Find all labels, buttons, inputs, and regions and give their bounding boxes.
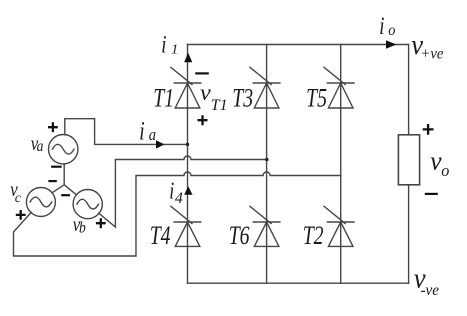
wire bottom rail (v-ve bus) xyxy=(188,282,409,284)
junction node phase a / leg 1 xyxy=(186,143,190,147)
svg-text:1: 1 xyxy=(171,42,178,58)
current arrow i4 xyxy=(184,186,192,195)
voltage source Vc xyxy=(26,188,55,217)
svg-text:i: i xyxy=(139,117,144,145)
current arrow i1 xyxy=(184,53,192,63)
thyristor T5 xyxy=(324,67,354,108)
thyristor T1 xyxy=(171,67,201,108)
label T1 xyxy=(153,83,174,112)
svg-text:T1: T1 xyxy=(211,97,228,114)
svg-text:b: b xyxy=(79,220,86,237)
label v-ve xyxy=(414,263,427,294)
wire phase c from Vc to leg 3 (hops over legs 1 and 2) xyxy=(14,172,341,256)
minus at Vb star side xyxy=(61,194,70,196)
svg-text:o: o xyxy=(388,21,396,39)
minus at Va bottom xyxy=(51,166,62,168)
current arrow io xyxy=(386,40,396,48)
label T2 xyxy=(303,220,324,249)
svg-text:a: a xyxy=(37,138,44,155)
wire phase b from Vb to leg 2 (hop over leg 1) xyxy=(99,156,267,227)
svg-text:T4: T4 xyxy=(150,220,171,249)
wire phase a from Va to leg 1 xyxy=(65,119,188,145)
label ia xyxy=(139,117,144,145)
wire right branch down to load xyxy=(408,45,410,135)
minus at T1 cathode xyxy=(195,72,209,74)
svg-text:T1: T1 xyxy=(153,83,174,112)
label v+ve xyxy=(411,29,424,60)
label va xyxy=(31,132,39,155)
junction node phase b / leg 2 xyxy=(265,158,269,162)
label T3 xyxy=(232,83,253,112)
wire leg 1 (T1/T4) xyxy=(187,45,189,284)
label vT1 xyxy=(200,80,211,105)
minus at Vc star side xyxy=(48,180,56,182)
svg-text:v: v xyxy=(200,80,211,105)
wire leg 2 (T3/T6) xyxy=(266,45,268,284)
label io xyxy=(379,11,384,39)
current arrow ia xyxy=(156,140,165,148)
voltage source Va xyxy=(49,135,78,164)
svg-text:c: c xyxy=(15,191,22,206)
thyristor T6 xyxy=(250,206,280,246)
thyristor T4 xyxy=(171,206,201,246)
label T4 xyxy=(150,220,171,249)
svg-text:T3: T3 xyxy=(232,83,253,112)
wire top rail (v+ve bus) xyxy=(188,44,409,46)
label T6 xyxy=(229,220,250,249)
svg-text:o: o xyxy=(441,161,449,180)
svg-text:T5: T5 xyxy=(306,83,327,112)
wire right branch load to bottom xyxy=(408,185,410,283)
plus at Vc output side xyxy=(16,210,26,220)
wire neutral star point xyxy=(52,164,76,195)
svg-text:4: 4 xyxy=(175,190,183,207)
label vc xyxy=(10,178,18,201)
label T5 xyxy=(306,83,327,112)
svg-text:i: i xyxy=(379,11,384,39)
load resistor xyxy=(398,135,419,185)
plus at load top xyxy=(423,124,434,135)
svg-text:i: i xyxy=(169,177,174,204)
plus at T1 anode xyxy=(198,115,208,125)
plus at Va top xyxy=(48,122,58,132)
label vo xyxy=(430,146,442,175)
label vb xyxy=(73,214,81,237)
wire leg 3 (T5/T2) xyxy=(340,45,342,284)
thyristor T2 xyxy=(324,206,354,246)
svg-text:-ve: -ve xyxy=(421,282,440,299)
svg-text:T2: T2 xyxy=(303,220,324,249)
svg-text:T6: T6 xyxy=(229,220,250,249)
label i4 xyxy=(169,177,174,204)
thyristor T3 xyxy=(250,67,280,108)
svg-text:i: i xyxy=(161,30,166,58)
svg-text:a: a xyxy=(149,126,156,144)
label i1 xyxy=(161,30,166,58)
minus at load bottom xyxy=(425,193,438,195)
svg-text:+ve: +ve xyxy=(420,45,443,63)
voltage source Vb xyxy=(73,190,102,219)
plus at Vb output side xyxy=(96,218,106,228)
